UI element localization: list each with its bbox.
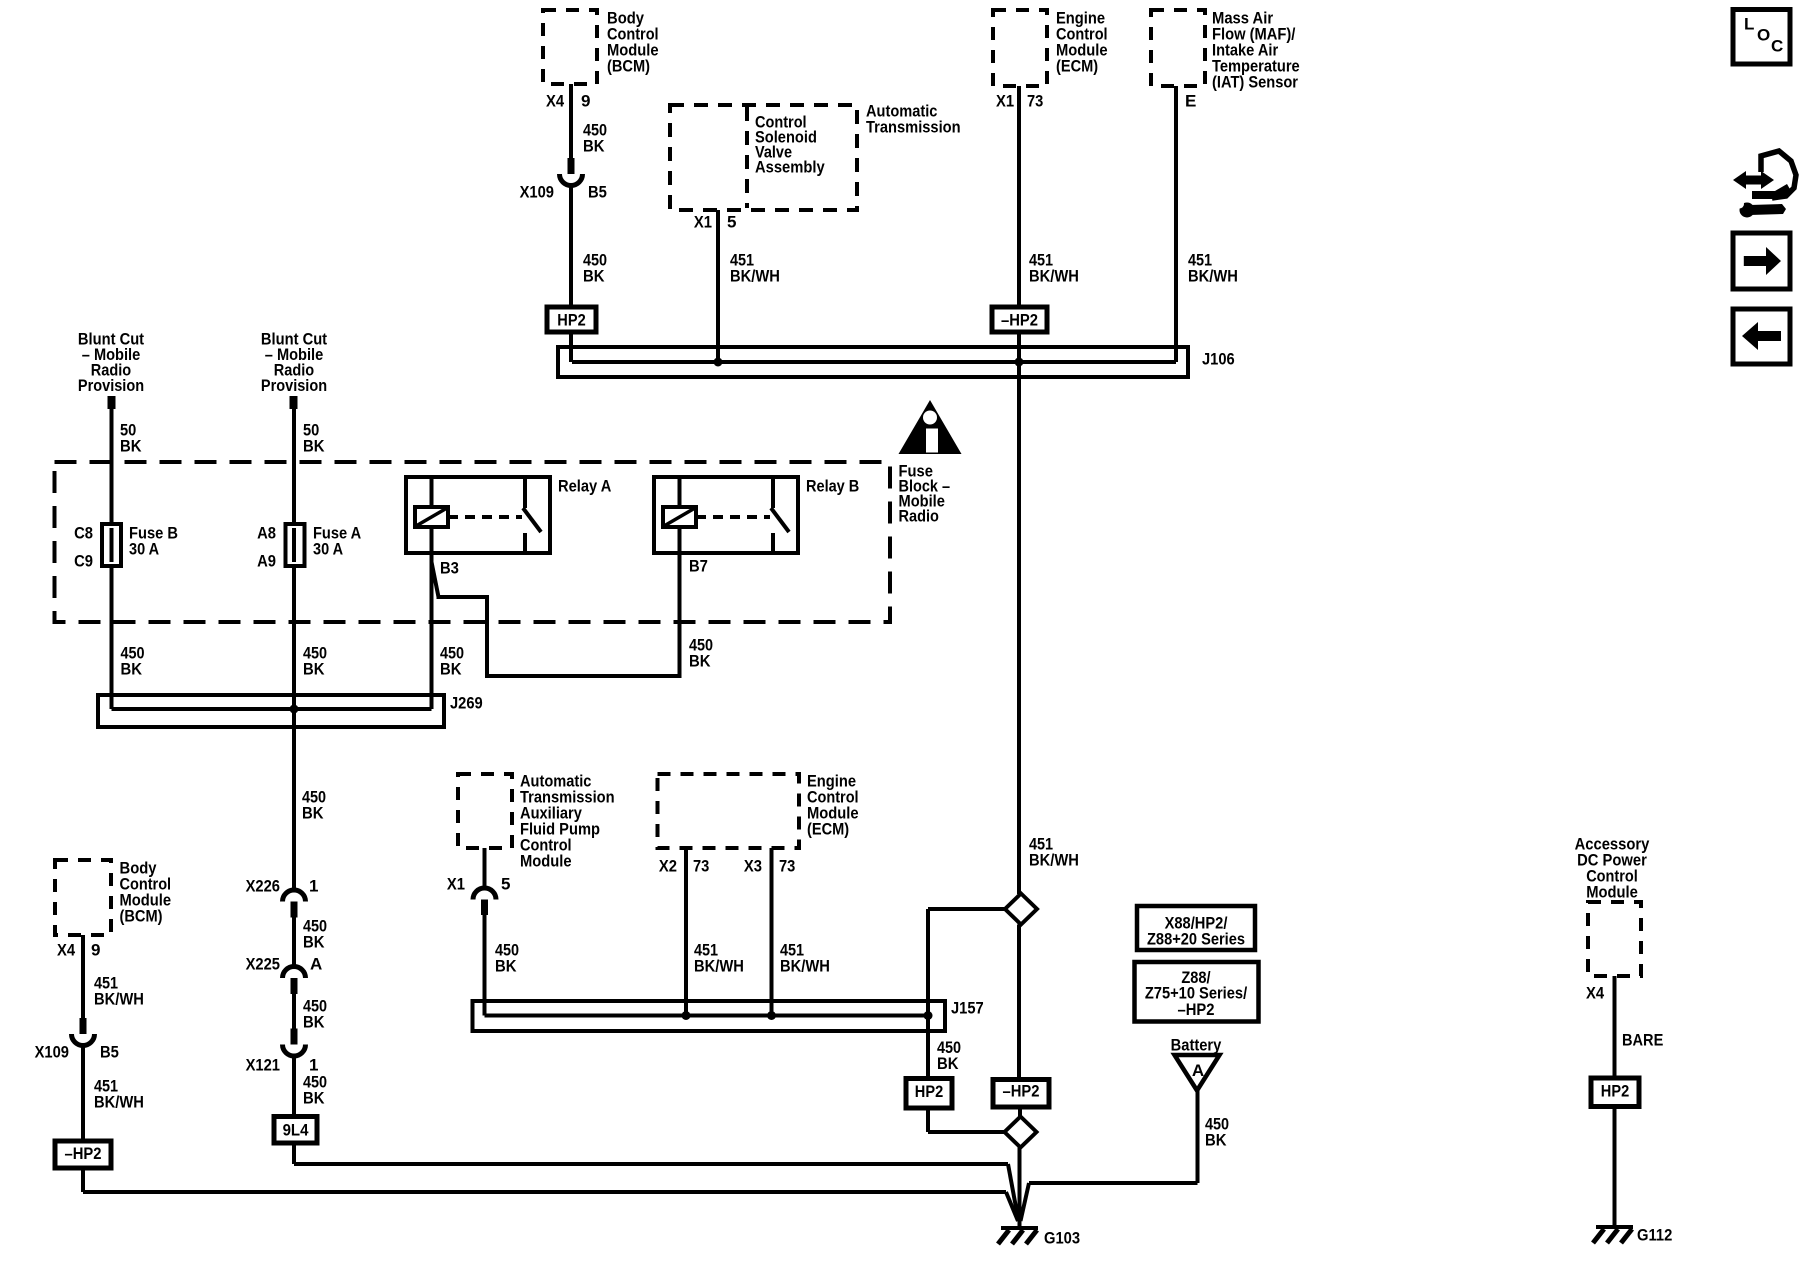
svg-text:BK: BK xyxy=(303,1088,325,1107)
svg-text:B7: B7 xyxy=(689,556,708,575)
svg-text:Provision: Provision xyxy=(261,376,327,395)
svg-text:BK/WH: BK/WH xyxy=(94,989,144,1008)
svg-text:BK: BK xyxy=(303,1012,325,1031)
svg-text:Provision: Provision xyxy=(78,376,144,395)
svg-text:Transmission: Transmission xyxy=(866,117,961,136)
svg-text:X226: X226 xyxy=(246,876,280,895)
svg-text:X109: X109 xyxy=(35,1042,69,1061)
svg-text:O: O xyxy=(1757,25,1770,44)
svg-text:(ECM): (ECM) xyxy=(1056,56,1098,75)
svg-text:A: A xyxy=(1192,1061,1204,1080)
svg-text:Relay A: Relay A xyxy=(558,476,611,495)
svg-text:X1: X1 xyxy=(694,212,712,231)
svg-text:9: 9 xyxy=(581,91,590,110)
svg-text:5: 5 xyxy=(727,212,736,231)
svg-text:X2: X2 xyxy=(659,856,677,875)
svg-text:Z88+20 Series: Z88+20 Series xyxy=(1147,929,1245,948)
svg-text:73: 73 xyxy=(693,856,709,875)
svg-text:5: 5 xyxy=(501,874,510,893)
svg-text:J157: J157 xyxy=(951,998,984,1017)
svg-text:BK: BK xyxy=(303,932,325,951)
svg-text:BK: BK xyxy=(495,956,517,975)
svg-text:BK: BK xyxy=(302,803,324,822)
svg-text:30 A: 30 A xyxy=(313,539,343,558)
svg-text:C: C xyxy=(1771,36,1783,55)
svg-text:HP2: HP2 xyxy=(1601,1081,1629,1100)
svg-text:BK/WH: BK/WH xyxy=(1029,266,1079,285)
svg-text:73: 73 xyxy=(779,856,795,875)
svg-text:C8: C8 xyxy=(74,523,93,542)
svg-text:X225: X225 xyxy=(246,954,280,973)
svg-text:X4: X4 xyxy=(57,940,76,959)
svg-text:A9: A9 xyxy=(257,551,276,570)
svg-text:G103: G103 xyxy=(1044,1228,1080,1247)
svg-text:BK: BK xyxy=(120,436,142,455)
svg-text:Battery: Battery xyxy=(1171,1035,1222,1054)
svg-text:BK/WH: BK/WH xyxy=(1188,266,1238,285)
svg-text:BK: BK xyxy=(583,266,605,285)
svg-text:B5: B5 xyxy=(588,182,607,201)
svg-text:30 A: 30 A xyxy=(129,539,159,558)
svg-text:BK: BK xyxy=(1205,1130,1227,1149)
svg-text:HP2: HP2 xyxy=(915,1082,943,1101)
svg-text:BK: BK xyxy=(303,659,325,678)
svg-text:A: A xyxy=(310,954,322,973)
svg-text:HP2: HP2 xyxy=(557,311,585,330)
svg-text:X1: X1 xyxy=(996,91,1014,110)
svg-text:X1: X1 xyxy=(447,874,465,893)
svg-text:X109: X109 xyxy=(520,182,554,201)
svg-text:E: E xyxy=(1185,91,1196,110)
svg-text:X121: X121 xyxy=(246,1055,280,1074)
svg-text:A8: A8 xyxy=(257,523,276,542)
svg-text:–HP2: –HP2 xyxy=(1001,311,1038,330)
svg-text:1: 1 xyxy=(309,876,318,895)
svg-text:BK: BK xyxy=(303,436,325,455)
svg-text:(BCM): (BCM) xyxy=(607,56,650,75)
svg-text:9: 9 xyxy=(91,940,100,959)
svg-text:C9: C9 xyxy=(74,551,93,570)
svg-text:BK/WH: BK/WH xyxy=(94,1092,144,1111)
svg-text:(BCM): (BCM) xyxy=(120,906,163,925)
svg-text:BK: BK xyxy=(937,1054,959,1073)
svg-text:Relay B: Relay B xyxy=(806,476,859,495)
svg-text:(ECM): (ECM) xyxy=(807,819,849,838)
svg-text:–HP2: –HP2 xyxy=(65,1144,102,1163)
svg-text:J106: J106 xyxy=(1202,349,1235,368)
svg-text:BK/WH: BK/WH xyxy=(1029,850,1079,869)
svg-text:BK: BK xyxy=(689,651,711,670)
svg-text:Radio: Radio xyxy=(899,506,939,525)
svg-text:B5: B5 xyxy=(100,1042,119,1061)
svg-text:BK/WH: BK/WH xyxy=(730,266,780,285)
svg-text:B3: B3 xyxy=(440,558,459,577)
svg-text:BK: BK xyxy=(583,136,605,155)
svg-text:9L4: 9L4 xyxy=(283,1120,309,1139)
svg-text:–HP2: –HP2 xyxy=(1003,1081,1040,1100)
svg-text:BK/WH: BK/WH xyxy=(780,956,830,975)
svg-text:Assembly: Assembly xyxy=(755,157,825,176)
svg-text:X4: X4 xyxy=(1586,983,1605,1002)
svg-text:BK: BK xyxy=(121,659,143,678)
svg-text:L: L xyxy=(1744,14,1754,33)
svg-text:(IAT) Sensor: (IAT) Sensor xyxy=(1212,72,1298,91)
svg-text:BK/WH: BK/WH xyxy=(694,956,744,975)
svg-text:73: 73 xyxy=(1027,91,1043,110)
svg-text:Module: Module xyxy=(1586,882,1638,901)
svg-text:X3: X3 xyxy=(744,856,762,875)
svg-text:–HP2: –HP2 xyxy=(1178,1000,1215,1019)
svg-text:G112: G112 xyxy=(1637,1225,1672,1244)
svg-text:BK: BK xyxy=(440,659,462,678)
svg-text:BARE: BARE xyxy=(1622,1030,1663,1049)
svg-text:Module: Module xyxy=(520,851,572,870)
svg-text:X4: X4 xyxy=(546,91,565,110)
svg-text:J269: J269 xyxy=(450,693,483,712)
